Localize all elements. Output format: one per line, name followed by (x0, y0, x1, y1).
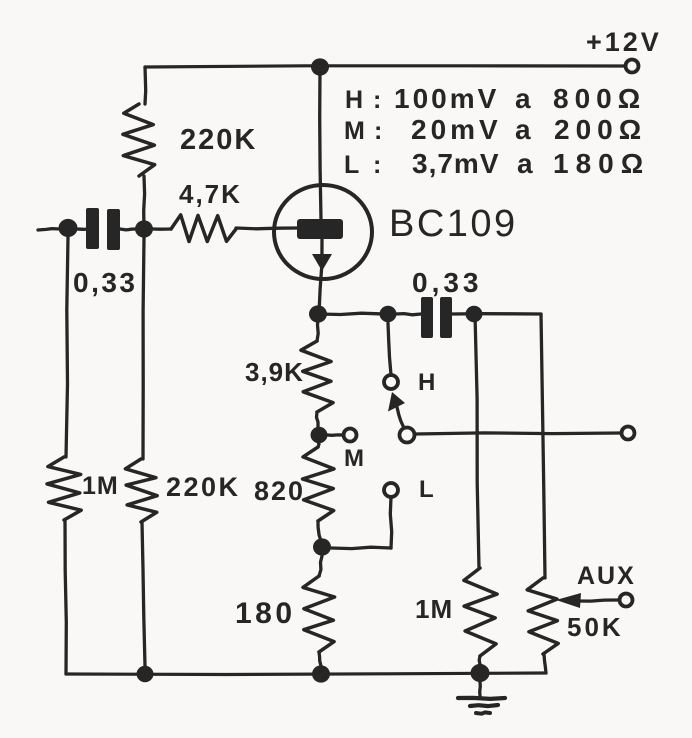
svg-text:M: M (344, 117, 365, 145)
potentiometer R9 50K zigzag (527, 578, 558, 654)
svg-text:20mV: 20mV (411, 114, 502, 145)
wire 220K-bottom to bottom rail (142, 522, 145, 666)
terminal switch L open circle (384, 483, 398, 497)
terminal output open circle (622, 427, 635, 440)
capacitor C1 0,33 plate left (86, 208, 99, 249)
wire input dot to C1 (77, 227, 87, 231)
label +12V (586, 27, 662, 57)
svg-text::: : (374, 117, 382, 145)
label L (switch position) (419, 476, 434, 503)
svg-text:50K: 50K (567, 612, 624, 642)
svg-text:800Ω: 800Ω (553, 83, 646, 114)
potentiometer wiper wire (578, 600, 618, 601)
wire 50K to rail corner (544, 654, 546, 673)
node emitter junction (309, 305, 327, 322)
wire R2 to transistor base (236, 226, 298, 230)
svg-text:3,7mV: 3,7mV (412, 148, 500, 179)
resistor R5 180 zigzag (303, 576, 335, 652)
wire R3 lower lead (317, 412, 319, 427)
label 4,7K (R2) (179, 179, 242, 209)
svg-text:220K: 220K (180, 124, 257, 156)
wire M node to R4 (318, 440, 319, 447)
wire bottom ground rail (66, 673, 546, 675)
wire emitter node to C2 branch (318, 313, 384, 314)
wire switch common to output (415, 433, 621, 434)
svg-text:0,33: 0,33 (73, 267, 138, 298)
wire H branch vertical (388, 323, 391, 375)
wire C2 to 50K corner (452, 312, 541, 316)
switch lever arrowhead (388, 392, 405, 412)
svg-text:200Ω: 200Ω (554, 114, 647, 145)
terminal AUX open circle (620, 594, 633, 607)
label 820 (R4) (254, 476, 305, 506)
node C2 output junction (466, 306, 483, 322)
label M (switch position) (344, 445, 364, 472)
wire to C2 left plate (396, 314, 421, 315)
switch lever wire (397, 407, 404, 428)
wire 220K-top lower lead (142, 176, 146, 229)
transistor Q1 emitter arrow (312, 254, 332, 271)
label 1M (R6) (82, 472, 119, 500)
label 220K (R1) (180, 124, 257, 156)
wire 220K-top upper lead (143, 67, 147, 104)
node 180 rail junction (312, 665, 330, 682)
svg-text:0,33: 0,33 (412, 267, 483, 298)
wire R4 junction to R5 (319, 556, 322, 576)
label 180 (R5) (235, 597, 296, 630)
svg-text:1M: 1M (82, 472, 119, 500)
wire 1M-left to bottom rail (65, 520, 66, 674)
node R4-R5 junction (313, 538, 331, 555)
svg-text:a: a (515, 83, 531, 114)
wire R4 to junction (318, 521, 321, 541)
svg-text:1M: 1M (415, 594, 453, 624)
capacitor C1 0,33 plate right (107, 209, 120, 250)
label AUX (577, 562, 636, 590)
label 0,33 (C1) (73, 267, 138, 298)
wire base node to R2 (153, 227, 171, 230)
label 0,33 (C2) (412, 267, 483, 298)
svg-text:3,9K: 3,9K (245, 357, 304, 387)
resistor R7 220K (bottom) zigzag (125, 459, 157, 522)
wire C2 node down to 1M (475, 314, 479, 568)
svg-text:180Ω: 180Ω (553, 148, 650, 179)
label 3,9K (R3) (245, 357, 304, 387)
wire corner down to 50K (541, 314, 545, 578)
node base junction (135, 220, 153, 237)
wire 1M-bottom to rail (478, 656, 482, 668)
label line L : 3,7mV a 180ohm (344, 148, 650, 179)
resistor R2 4,7K zigzag (171, 215, 236, 242)
wire base node down to 220K-bottom (143, 238, 144, 459)
node ground rail junction (471, 664, 490, 682)
svg-text:+12V: +12V (586, 27, 662, 57)
wire ground stub (478, 682, 482, 696)
label line M : 20mV a 200ohm (344, 114, 647, 145)
svg-text:100mV: 100mV (394, 83, 499, 114)
terminal M open circle (344, 429, 357, 442)
wire junction to L riser (331, 547, 391, 548)
svg-text:180: 180 (235, 597, 296, 630)
node switch-H branch junction (380, 306, 397, 322)
svg-text:4,7K: 4,7K (179, 179, 242, 209)
wire input node down to 1M-left (66, 237, 68, 457)
label H (switch position) (418, 369, 435, 396)
svg-text:M: M (344, 445, 364, 472)
resistor R8 1M (bottom) zigzag (464, 568, 497, 656)
wire collector lead (320, 67, 321, 220)
wire L riser (390, 497, 391, 548)
resistor R3 3,9K zigzag (301, 341, 333, 412)
wire C1 to base node (120, 227, 138, 231)
svg-text::: : (373, 86, 381, 114)
label 50K (R9) (567, 612, 624, 642)
wire M node to M terminal (327, 433, 344, 437)
node 220K-bottom rail junction (137, 666, 154, 682)
label 220K (R7) (166, 472, 241, 502)
terminal +12V open circle (626, 60, 639, 73)
node M junction (311, 427, 328, 443)
node collector-rail junction (311, 58, 329, 75)
svg-text:L: L (419, 476, 434, 503)
terminal switch common open circle (400, 428, 415, 443)
svg-text:220K: 220K (166, 472, 241, 502)
capacitor C2 0,33 plate left (421, 297, 433, 338)
svg-text:BC109: BC109 (389, 203, 518, 245)
ground bar 3 (476, 712, 490, 713)
svg-text:H: H (345, 86, 363, 114)
label BC109 (Q1) (389, 203, 518, 245)
svg-text:a: a (517, 148, 533, 179)
label line H : 100mV a 800ohm (345, 83, 646, 114)
ground bar 1 (458, 698, 505, 699)
wire input stub (38, 229, 60, 230)
svg-text:AUX: AUX (577, 562, 636, 590)
svg-text::: : (373, 151, 381, 179)
svg-text:820: 820 (254, 476, 305, 506)
wire emitter node to R3 (317, 318, 318, 341)
transistor Q1 BC109 circle (274, 185, 372, 279)
resistor R4 820 zigzag (303, 447, 335, 521)
wire top +12V rail (145, 66, 624, 67)
svg-text:L: L (344, 151, 359, 179)
capacitor C2 0,33 plate right (440, 297, 452, 338)
node input junction (59, 219, 78, 237)
resistor R6 1M (left) zigzag (47, 457, 81, 520)
ground bar 2 (470, 705, 498, 706)
resistor R1 220K (top) zigzag (123, 104, 155, 176)
wire R5 to ground rail (319, 652, 321, 666)
terminal switch H open circle (384, 375, 398, 389)
wire emitter lead (319, 239, 322, 314)
transistor Q1 base bar (297, 219, 343, 239)
svg-text:H: H (418, 369, 435, 396)
potentiometer wiper arrowhead (556, 593, 581, 608)
label 1M (R8) (415, 594, 453, 624)
svg-text:a: a (515, 114, 531, 145)
